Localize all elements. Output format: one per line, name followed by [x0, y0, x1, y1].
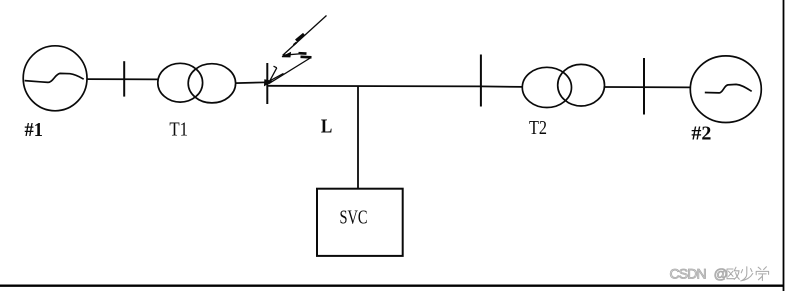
svg-text:T1: T1 [169, 118, 188, 140]
label #2 [691, 123, 711, 145]
svg-text:@: @ [714, 266, 728, 282]
transformer T2 [522, 64, 604, 107]
svg-text:#1: #1 [25, 119, 43, 141]
wire generator #1 to bus B1 to transformer T1 [87, 78, 158, 80]
label T2 [529, 116, 547, 138]
wire transformer T2 to bus B4 to generator #2 [605, 86, 691, 88]
label SVC [340, 205, 368, 228]
lightning fault arrow [265, 16, 327, 86]
SVC block [317, 189, 403, 256]
svg-text:L: L [321, 115, 332, 138]
label #1 [25, 119, 43, 141]
svg-text:CSDN: CSDN [670, 266, 706, 282]
generator #1 [23, 46, 87, 111]
bus B3 [480, 55, 482, 107]
wire transformer T1 to bus B2 [236, 81, 268, 84]
transformer T1 [158, 63, 236, 103]
frame border bottom [0, 285, 784, 287]
bus B1 [123, 61, 125, 96]
watermark CJK glyphs [727, 267, 769, 281]
watermark CSDN [670, 266, 728, 282]
frame border right [783, 0, 785, 291]
bus B4 [643, 58, 645, 115]
svg-text:SVC: SVC [340, 205, 368, 228]
generator #2 [690, 56, 761, 123]
svg-text:#2: #2 [691, 123, 711, 145]
label L [321, 115, 332, 138]
wire: transmission line L from bus B2 to bus B3 and on to transformer T2 [267, 86, 522, 87]
svg-text:T2: T2 [529, 116, 547, 138]
bus B2 (faulted bus) [266, 63, 268, 104]
wire: tap junction down to SVC [357, 86, 359, 189]
label T1 [169, 118, 188, 140]
